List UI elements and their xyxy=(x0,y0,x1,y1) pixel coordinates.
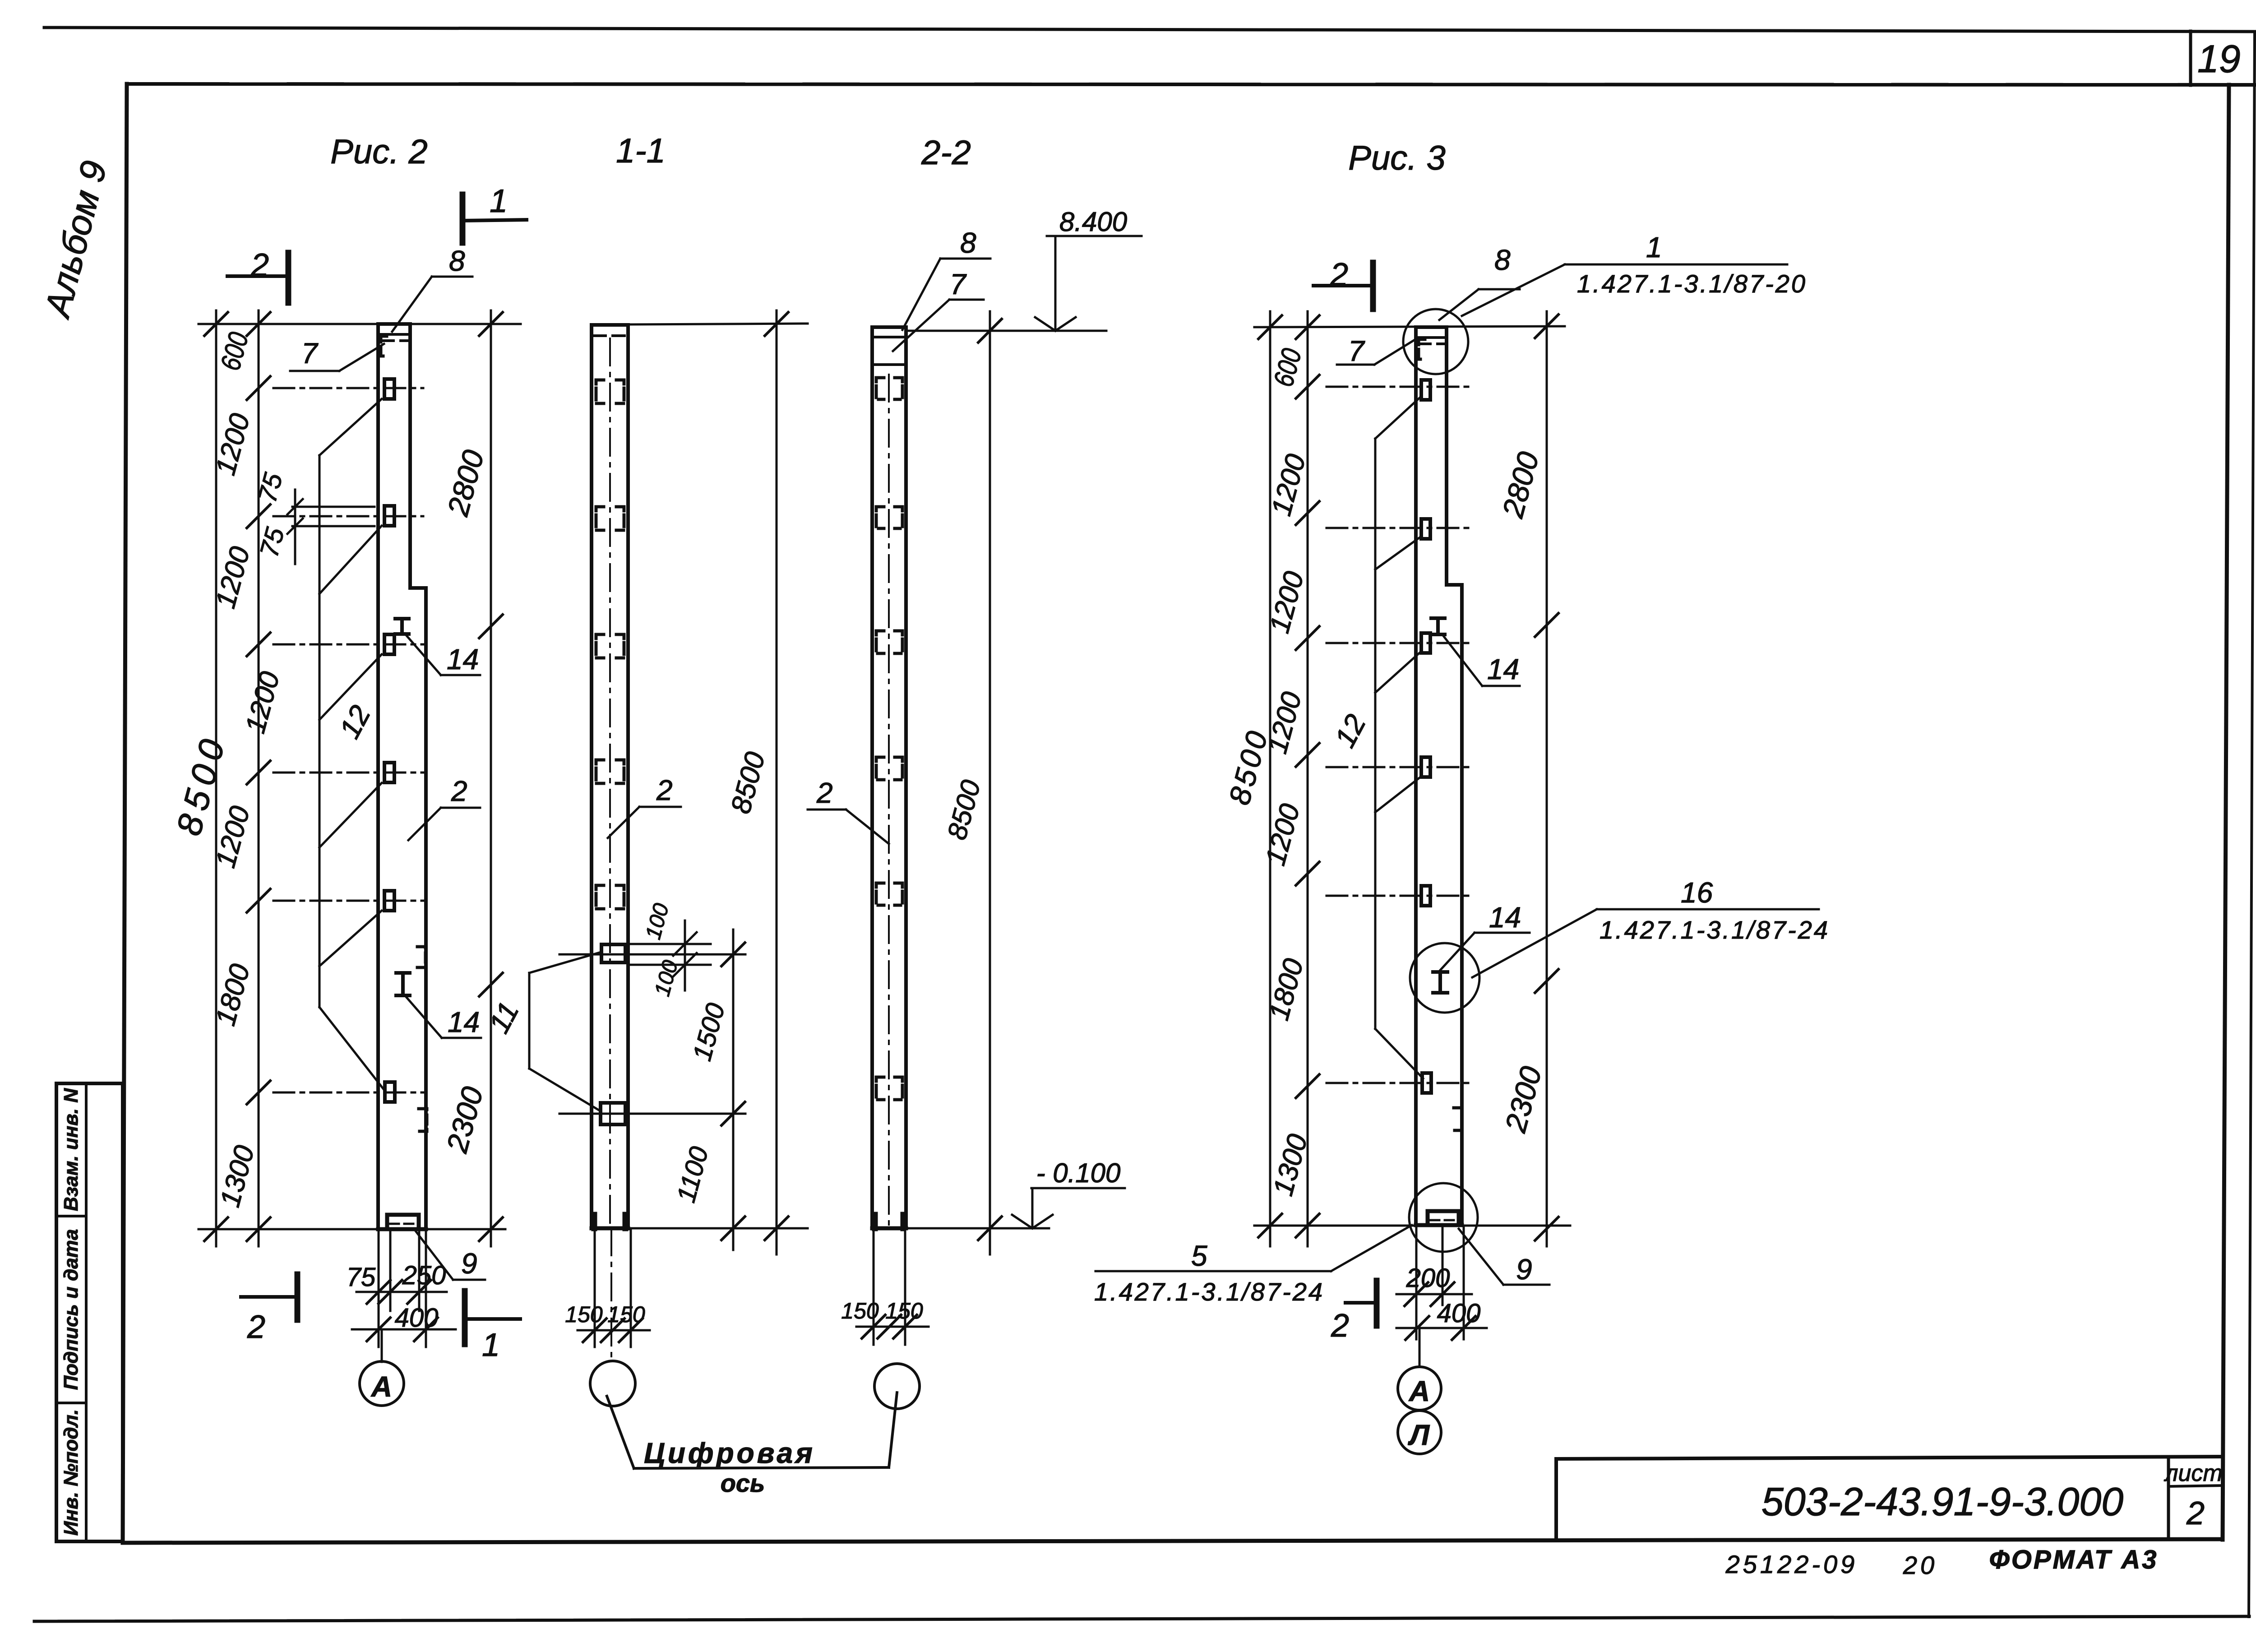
fig3 dim line segments xyxy=(1307,311,1309,1246)
fig3 centerline level 3 xyxy=(1327,766,1469,768)
fig2 embedded plate mark m3 xyxy=(384,634,394,654)
fig3 bottom dim extensions xyxy=(1396,1226,1487,1339)
svg-text:150: 150 xyxy=(841,1298,879,1323)
svg-text:250: 250 xyxy=(402,1261,446,1290)
svg-text:14: 14 xyxy=(448,1006,480,1038)
main drawing frame bottom line xyxy=(123,1539,2223,1543)
fig2 bottom dim extensions xyxy=(352,1229,456,1347)
svg-text:16: 16 xyxy=(1681,876,1713,909)
svg-text:150: 150 xyxy=(885,1298,923,1323)
svg-text:2: 2 xyxy=(247,1309,265,1345)
svg-text:Л: Л xyxy=(1408,1419,1430,1451)
fig2 leader label 2 xyxy=(408,775,480,840)
svg-text:25122-09: 25122-09 xyxy=(1725,1550,1858,1578)
fig2 centerline level 1 xyxy=(273,515,423,518)
fig3 axis line to circles xyxy=(1419,1328,1421,1366)
fig3 leader label 5 ref xyxy=(1094,1225,1412,1306)
fig2 bottom plate 9 xyxy=(387,1215,419,1229)
fig22 level mark -0.100 xyxy=(1012,1158,1125,1228)
fig2 centerline level 5 xyxy=(273,1092,423,1094)
fig11 dashed line under cap xyxy=(594,334,626,337)
svg-text:А: А xyxy=(370,1370,392,1403)
fig11 ticks 150/150 xyxy=(583,1319,643,1342)
fig11 channel marks level 2 xyxy=(596,507,604,530)
svg-text:19: 19 xyxy=(2197,37,2241,81)
fig2 leader label 14 lower xyxy=(406,996,481,1038)
svg-text:20: 20 xyxy=(1903,1551,1937,1579)
fig22 ticks 8500 xyxy=(978,319,1002,1240)
fig3 dim line 8500 xyxy=(1269,311,1271,1246)
fig2 embedded plate mark m6 xyxy=(385,1082,395,1102)
fig2 centerline level 3 xyxy=(273,772,423,774)
fig11 square plate lower (11) xyxy=(601,1103,625,1124)
svg-text:1.427.1-3.1/87-24: 1.427.1-3.1/87-24 xyxy=(1600,916,1830,944)
svg-text:1.427.1-3.1/87-24: 1.427.1-3.1/87-24 xyxy=(1094,1277,1324,1306)
svg-text:8: 8 xyxy=(1494,244,1511,276)
fig2 leader collector line 12 xyxy=(319,399,386,1092)
fig3 leader label 7 xyxy=(1337,335,1418,367)
svg-text:2: 2 xyxy=(816,777,833,809)
svg-text:1: 1 xyxy=(1646,231,1662,264)
sheet outer top border line xyxy=(44,28,2255,32)
svg-text:Рис. 2: Рис. 2 xyxy=(330,133,427,171)
fig11 bottom 150/150 dims xyxy=(578,1230,650,1347)
left stamp table inner vertical divider xyxy=(85,1083,88,1541)
svg-text:14: 14 xyxy=(1487,653,1519,685)
fig3 centerline level 2 xyxy=(1327,642,1469,644)
title block "Лист" divider horizontal xyxy=(2168,1485,2223,1486)
fig22 column outline xyxy=(872,327,906,1228)
fig11 dim line 8500 xyxy=(776,310,778,1254)
fig2 top extension line xyxy=(199,323,521,325)
fig3 bottom extension line xyxy=(1254,1225,1570,1227)
fig3 embedded plate mark m6 xyxy=(1422,1073,1431,1093)
fig11 leader label 2 xyxy=(608,774,681,838)
svg-text:Инв. №подл.: Инв. №подл. xyxy=(60,1409,82,1536)
fig2 leader label 7 xyxy=(290,337,384,371)
fig3 leader label 14 upper xyxy=(1443,635,1520,686)
fig2 embedded plate mark m4 xyxy=(384,763,394,782)
fig3 embedded plate mark m2 xyxy=(1421,519,1430,539)
svg-text:А: А xyxy=(1408,1375,1430,1407)
fig11 axis circle (unlabeled) xyxy=(590,1361,635,1406)
page number box "19" left divider xyxy=(2189,31,2192,85)
fig11 centerline of plate lower xyxy=(559,1113,745,1115)
fig3 top-left corner piece 7 xyxy=(1419,339,1425,359)
fig3 bottom plate 9 xyxy=(1428,1211,1459,1225)
fig22 channel marks level 3 xyxy=(876,631,884,653)
fig3 ticks on 8500 line xyxy=(1258,315,1282,1237)
fig11 ticks 1500/1100 xyxy=(721,943,745,1240)
fig2 ticks on right dim line xyxy=(479,312,503,1241)
fig22 bottom 150/150 dims xyxy=(856,1230,929,1345)
svg-text:2: 2 xyxy=(1331,1308,1349,1344)
main drawing frame left line xyxy=(123,84,127,1543)
fig3 centerline level 600 xyxy=(1327,386,1469,388)
fig11 bottom extension line xyxy=(630,1227,808,1230)
svg-text:2: 2 xyxy=(1330,257,1348,293)
svg-text:лист: лист xyxy=(2164,1460,2223,1486)
section marker 2 top (fig 3) xyxy=(1313,257,1373,309)
svg-text:14: 14 xyxy=(1489,901,1521,934)
fig3 bottom plate dashed line xyxy=(1430,1219,1456,1222)
fig3 leader label 9 xyxy=(1459,1229,1549,1286)
fig11 square plate upper (11) xyxy=(601,944,625,963)
svg-text:7: 7 xyxy=(1348,335,1365,367)
fig11 channel marks level 3 xyxy=(596,634,604,658)
fig22 axis circle (unlabeled) xyxy=(874,1364,920,1409)
fig11 top extension line xyxy=(630,324,808,324)
svg-text:1.427.1-3.1/87-20: 1.427.1-3.1/87-20 xyxy=(1577,269,1807,298)
fig3 embedded plate mark m4 xyxy=(1421,757,1430,777)
fig3 centerline level 4 xyxy=(1327,895,1469,897)
fig11 column outline xyxy=(592,325,628,1228)
fig11 ticks 8500 xyxy=(765,312,788,1240)
svg-text:- 0.100: - 0.100 xyxy=(1036,1158,1121,1188)
left stamp table divider 2 xyxy=(56,1402,86,1404)
section marker 1 bottom xyxy=(465,1291,520,1363)
title block top line xyxy=(1556,1457,2223,1459)
fig11 100/100 extension lines xyxy=(629,921,711,990)
fig3 I-beam mark 14 upper xyxy=(1431,618,1445,634)
fig3 column outline xyxy=(1416,327,1462,1225)
fig2 bottom plate dashed line xyxy=(390,1223,416,1225)
fig3 dashed channel on right edge xyxy=(1454,1108,1462,1130)
fig2 I-beam mark 14 upper xyxy=(395,619,409,634)
svg-text:1: 1 xyxy=(490,183,508,219)
fig2 dashed line under cap xyxy=(383,339,409,342)
fig22 dim line 8500 xyxy=(989,311,991,1254)
fig2 column outline xyxy=(378,324,426,1229)
fig3 leader label 1 ref xyxy=(1462,231,1807,316)
fig11 dim line 1500/1100 xyxy=(732,930,735,1250)
fig2 top-left corner piece 7 xyxy=(381,336,387,356)
svg-text:8: 8 xyxy=(449,245,465,277)
fig2 I-beam mark 14 lower xyxy=(396,973,410,995)
fig11 axis dash-dot xyxy=(609,338,611,1228)
fig3 embedded plate mark m3 xyxy=(1421,633,1430,653)
svg-text:2: 2 xyxy=(656,774,673,806)
main drawing frame right line xyxy=(2223,85,2229,1540)
svg-text:2: 2 xyxy=(250,247,269,283)
main drawing frame top line xyxy=(127,84,2255,85)
fig22 channel marks level 6 xyxy=(876,1077,884,1100)
fig2 dashed channel on right edge upper xyxy=(417,947,425,967)
fig2 bottom dim ticks xyxy=(367,1280,438,1341)
svg-text:9: 9 xyxy=(1516,1253,1532,1286)
fig22 channel marks level 5 xyxy=(876,883,884,905)
svg-text:ФОРМАТ А3: ФОРМАТ А3 xyxy=(1989,1545,2158,1574)
fig22 channel marks level 1 xyxy=(876,378,884,399)
fig2 embedded plate mark m2 xyxy=(384,506,394,526)
fig3 detail circle bottom xyxy=(1409,1183,1478,1252)
fig3 top extension line xyxy=(1254,326,1565,327)
fig3 dashed line under cap xyxy=(1419,342,1445,345)
title block "Лист" divider vertical xyxy=(2167,1458,2170,1540)
svg-text:5: 5 xyxy=(1191,1240,1207,1272)
fig11 bracket leader 11 xyxy=(529,952,601,1111)
fig3 leader label 16 ref xyxy=(1472,876,1830,977)
left stamp table divider 1 xyxy=(56,1215,86,1217)
fig2 right dim line 2800/2300 xyxy=(490,310,492,1246)
svg-text:150: 150 xyxy=(565,1302,603,1327)
svg-text:2-2: 2-2 xyxy=(921,134,971,172)
fig22 channel marks level 4 xyxy=(876,757,884,780)
section marker 2 top (fig 2) xyxy=(227,247,288,303)
fig22 channel marks level 2 xyxy=(876,507,884,528)
fig11 centerline of plate upper xyxy=(559,953,745,956)
fig2 leader label 8 xyxy=(392,245,472,332)
fig22 leader label 7 xyxy=(893,268,984,351)
svg-text:503-2-43.91-9-3.000: 503-2-43.91-9-3.000 xyxy=(1761,1479,2123,1524)
fig2 axis line to circle xyxy=(381,1329,383,1362)
fig2 centerline level 2 xyxy=(273,643,423,646)
svg-text:2: 2 xyxy=(2186,1495,2205,1532)
fig11 bottom corner blocks xyxy=(594,1215,625,1228)
fig2 leader label 14 upper xyxy=(405,634,480,676)
fig2 bottom extension line xyxy=(199,1228,505,1231)
svg-text:Цифровая: Цифровая xyxy=(644,1437,815,1469)
fig3 leader collector line 12 xyxy=(1375,397,1423,1078)
fig22 ticks 150/150 xyxy=(862,1315,917,1338)
fig22 bottom corner blocks xyxy=(875,1215,903,1228)
fig3 I-beam mark 14 lower (in circle) xyxy=(1433,972,1447,993)
fig3 detail circle middle xyxy=(1410,943,1479,1013)
svg-text:Взам. инв. N: Взам. инв. N xyxy=(60,1088,82,1211)
fig2 centerline level 4 xyxy=(273,900,423,902)
digital axis leader right xyxy=(889,1393,897,1467)
svg-text:400: 400 xyxy=(1437,1299,1481,1328)
svg-text:150: 150 xyxy=(607,1302,645,1327)
fig22 top level line xyxy=(908,330,1106,332)
fig3 detail circle top xyxy=(1403,309,1468,374)
sheet outer right border line xyxy=(2249,32,2255,1617)
fig2 75/75 extension lines xyxy=(287,490,374,564)
fig22 bottom level line xyxy=(908,1227,1049,1230)
fig3 centerline level 5 xyxy=(1327,1082,1469,1084)
fig3 embedded plate mark m1 xyxy=(1421,380,1430,400)
digital axis leader underline xyxy=(634,1467,889,1468)
svg-text:200: 200 xyxy=(1406,1263,1450,1293)
svg-text:9: 9 xyxy=(461,1247,477,1280)
fig11 channel marks level 4 xyxy=(596,760,604,783)
section marker 2 bottom (fig 3) xyxy=(1331,1281,1377,1344)
fig3 centerline level 1 xyxy=(1327,527,1469,529)
fig3 right dim line 2800/2300 xyxy=(1546,311,1548,1246)
fig2 axis circle А xyxy=(360,1361,404,1406)
svg-text:8: 8 xyxy=(960,227,976,259)
fig3 leader label 8 xyxy=(1439,244,1520,320)
fig22 leader label 2 xyxy=(808,777,889,844)
svg-text:2: 2 xyxy=(451,775,467,807)
fig3 ticks on right dim line xyxy=(1535,315,1558,1240)
fig22 leader label 8 xyxy=(902,227,990,330)
fig2 leader label 9 xyxy=(416,1231,485,1280)
fig2 embedded plate mark m1 xyxy=(384,379,394,399)
svg-text:8.400: 8.400 xyxy=(1059,207,1127,237)
fig3 embedded plate mark m5 xyxy=(1421,886,1430,906)
fig2 ticks on segment dim line xyxy=(247,312,270,1241)
svg-text:7: 7 xyxy=(301,337,319,370)
fig22 level mark 8.400 xyxy=(1035,207,1142,331)
left stamp table outer box xyxy=(56,1083,123,1541)
digital axis leader left xyxy=(607,1396,634,1468)
fig11 channel marks level 5 xyxy=(596,885,604,909)
fig3 axis circle А xyxy=(1398,1367,1441,1410)
fig3 ticks on segment dim line xyxy=(1296,315,1319,1237)
title block left edge xyxy=(1554,1459,1558,1540)
fig3 leader label 14 middle xyxy=(1440,901,1530,970)
section marker 2 bottom (fig 2) xyxy=(241,1274,297,1345)
fig2 centerline level 600 xyxy=(273,387,423,389)
fig2 ticks on 8500 line xyxy=(204,312,228,1241)
fig11 axis line to circle xyxy=(610,1228,612,1361)
fig2 dim line segments xyxy=(258,310,260,1246)
svg-text:1: 1 xyxy=(482,1327,500,1363)
svg-text:400: 400 xyxy=(395,1303,439,1333)
svg-text:75: 75 xyxy=(347,1263,376,1292)
svg-text:Рис. 3: Рис. 3 xyxy=(1348,139,1445,177)
svg-text:Подпись и дата: Подпись и дата xyxy=(60,1229,82,1390)
fig2 embedded plate mark m5 xyxy=(384,891,394,911)
fig3 bottom dim ticks xyxy=(1405,1282,1475,1340)
section marker 1 top xyxy=(462,183,527,243)
fig2 dashed channel on right edge lower xyxy=(419,1109,427,1131)
svg-text:1-1: 1-1 xyxy=(616,132,666,170)
fig2 dim line 8500 xyxy=(215,310,217,1246)
fig3 axis circle Л xyxy=(1398,1411,1441,1454)
sheet outer bottom border line xyxy=(34,1616,2249,1621)
svg-text:14: 14 xyxy=(447,643,479,676)
fig11 channel marks level 1 xyxy=(596,380,604,403)
svg-text:7: 7 xyxy=(950,268,967,301)
svg-text:ось: ось xyxy=(721,1469,765,1497)
fig22 axis dash-dot xyxy=(888,375,890,1228)
